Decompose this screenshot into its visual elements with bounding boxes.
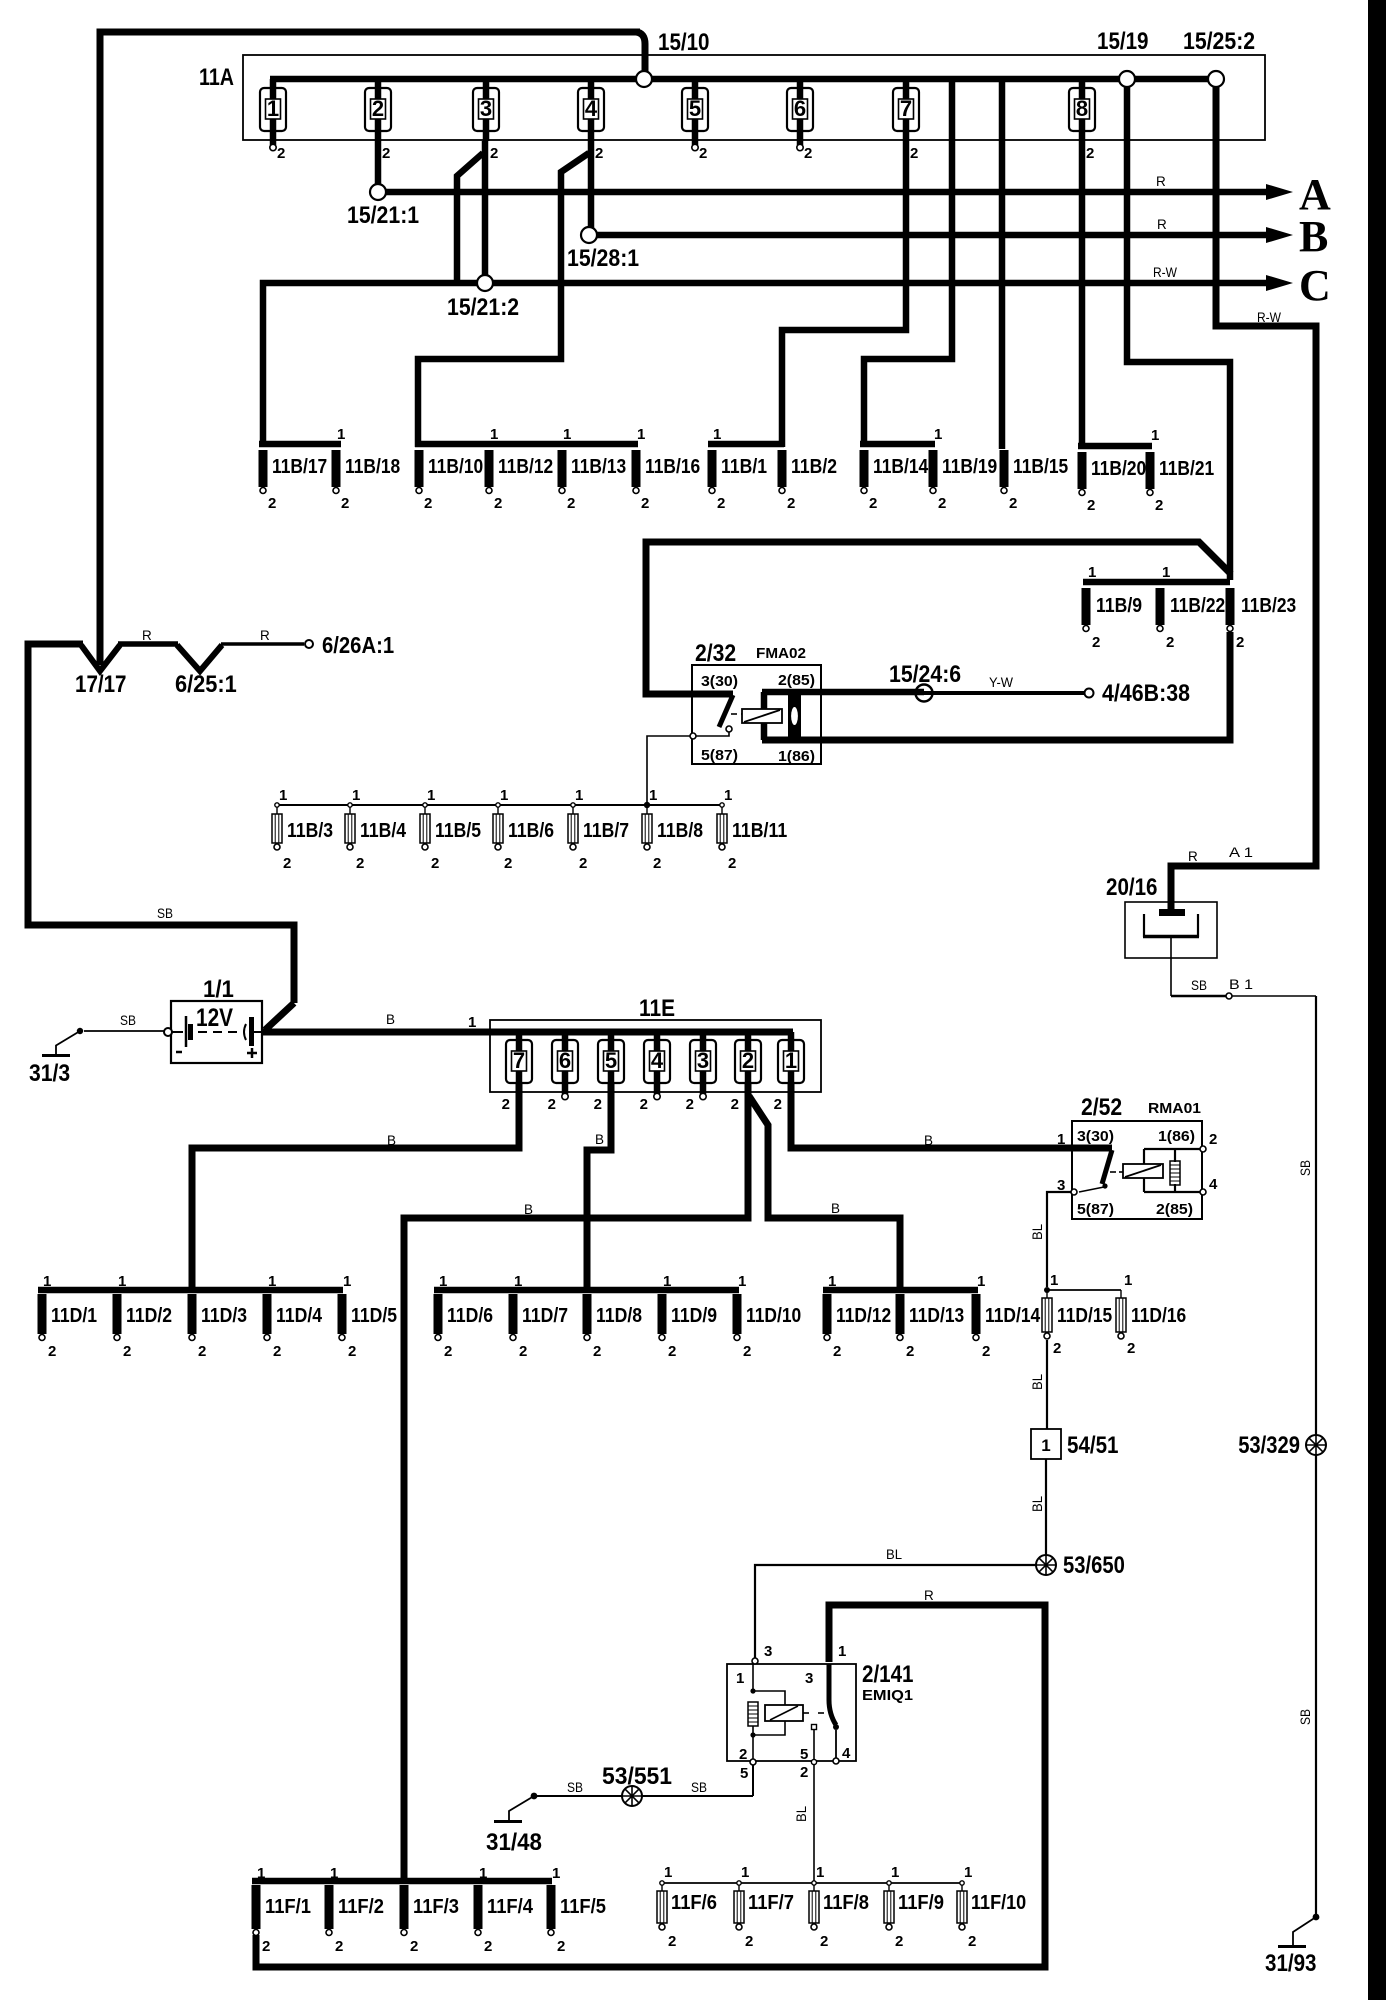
svg-text:1: 1 [479, 1865, 487, 1882]
fuse 11F/4 [474, 1885, 483, 1936]
fuse box 11A outline [243, 55, 1265, 140]
fuse 11B/5 [423, 803, 427, 807]
fuse 11B/1 [708, 450, 717, 494]
svg-text:1: 1 [267, 96, 279, 121]
relay 2/32 switch blade [719, 695, 733, 727]
svg-text:4: 4 [585, 96, 598, 121]
svg-text:1: 1 [490, 426, 498, 443]
fuse 11A position 8 [1069, 88, 1095, 131]
fuse 11B/3 [275, 803, 279, 807]
bus 11B/14-19 [860, 441, 935, 448]
svg-text:2: 2 [1166, 634, 1174, 651]
fuse 11B/19 [929, 450, 938, 494]
svg-text:11E: 11E [639, 995, 675, 1022]
fuse 11F/2 [325, 1885, 334, 1936]
svg-text:6/26A:1: 6/26A:1 [322, 632, 394, 658]
svg-text:11B/17: 11B/17 [272, 456, 327, 478]
svg-text:R-W: R-W [1153, 265, 1177, 280]
svg-text:2: 2 [494, 495, 502, 512]
svg-text:11D/12: 11D/12 [836, 1305, 891, 1327]
fuse 11E position 2 [735, 1040, 761, 1083]
relay 2/52 box [1072, 1121, 1202, 1219]
svg-text:11D/5: 11D/5 [351, 1305, 397, 1327]
svg-text:R: R [260, 628, 270, 643]
svg-text:2: 2 [382, 145, 390, 162]
svg-text:11F/10: 11F/10 [971, 1892, 1026, 1914]
node 15/25:2 [1208, 71, 1224, 87]
svg-text:2: 2 [717, 495, 725, 512]
svg-text:31/48: 31/48 [486, 1829, 542, 1856]
fuse 11A position 2 wire [375, 79, 382, 141]
svg-text:2: 2 [567, 495, 575, 512]
fuse 11D/13 [896, 1294, 905, 1341]
svg-text:2/52: 2/52 [1081, 1094, 1122, 1121]
bus 11F/6-10 [662, 1882, 962, 1884]
wire 11E fuse2 to 11F/3 (long drop) [404, 1082, 748, 1884]
svg-text:11B/15: 11B/15 [1013, 456, 1068, 478]
svg-text:11B/12: 11B/12 [498, 456, 553, 478]
svg-text:2: 2 [1053, 1340, 1061, 1357]
wire BL 2/141 to 11F/8 [813, 1765, 815, 1883]
svg-text:2: 2 [968, 1933, 976, 1950]
svg-text:11B/2: 11B/2 [791, 456, 837, 478]
svg-text:3: 3 [480, 96, 492, 121]
arrow C head [1266, 275, 1293, 291]
pin 2 of 11A fuse 6 [797, 144, 803, 150]
svg-text:4: 4 [651, 1048, 664, 1073]
fuse 11D/12 [823, 1294, 832, 1341]
svg-text:3: 3 [805, 1670, 813, 1687]
wire loop to 2/32 pin 3(30) [646, 542, 1231, 694]
svg-text:Y-W: Y-W [989, 675, 1013, 690]
svg-text:1: 1 [637, 426, 645, 443]
svg-text:2: 2 [262, 1938, 270, 1955]
svg-text:3: 3 [697, 1048, 709, 1073]
svg-text:2: 2 [800, 1764, 808, 1781]
fuse 11A position 4 [578, 88, 604, 131]
2/141 switch blade [829, 1664, 836, 1725]
wire B battery to 11E bus [262, 1029, 793, 1036]
svg-text:1: 1 [552, 1865, 560, 1882]
svg-text:2: 2 [1092, 634, 1100, 651]
fuse 11D/7 [509, 1294, 518, 1341]
battery plus sign [247, 1052, 257, 1055]
battery terminal circle [164, 1028, 172, 1036]
svg-text:1: 1 [427, 787, 435, 804]
svg-text:1: 1 [816, 1864, 824, 1881]
svg-text:1: 1 [118, 1273, 126, 1290]
fuse 11E position 3 wire [700, 1032, 707, 1094]
fuse 11E position 3 [690, 1040, 716, 1083]
node 15/24:6 circle [916, 685, 933, 702]
arrow B head [1266, 227, 1293, 243]
svg-text:2/141: 2/141 [862, 1661, 914, 1688]
svg-text:1: 1 [257, 1865, 265, 1882]
svg-text:8: 8 [1076, 96, 1088, 121]
pin circle 3 of 2/141 [752, 1658, 758, 1664]
svg-text:2: 2 [641, 495, 649, 512]
svg-text:11D/7: 11D/7 [522, 1305, 568, 1327]
svg-text:2: 2 [273, 1343, 281, 1360]
wire SB right rail [1315, 996, 1317, 1914]
svg-text:1: 1 [514, 1273, 522, 1290]
svg-text:2: 2 [283, 855, 291, 872]
wire 11A fuse3 to 15/21:2 [482, 141, 489, 276]
svg-text:11B/1: 11B/1 [721, 456, 767, 478]
junction 5(87) feed on 11B bus [644, 802, 650, 808]
battery 1/1 box [171, 1001, 262, 1063]
svg-text:11D/13: 11D/13 [909, 1305, 964, 1327]
fuse 11F/6 [660, 1881, 664, 1885]
svg-text:15/25:2: 15/25:2 [1183, 28, 1255, 55]
svg-text:15/21:2: 15/21:2 [447, 294, 519, 321]
relay 2/32 coil bar [761, 692, 768, 740]
svg-text:11B/22: 11B/22 [1170, 595, 1225, 617]
svg-text:RMA01: RMA01 [1148, 1100, 1201, 1117]
svg-text:B: B [387, 1133, 396, 1148]
2/141 fixed contact [812, 1725, 817, 1730]
bus 11B/10-16 [415, 441, 638, 448]
svg-text:15/21:1: 15/21:1 [347, 202, 419, 229]
svg-text:2: 2 [1086, 145, 1094, 162]
svg-text:1: 1 [741, 1864, 749, 1881]
fuse 11F/1 [252, 1885, 261, 1936]
svg-text:1: 1 [724, 787, 732, 804]
svg-text:2: 2 [490, 145, 498, 162]
connector 6/25:1 (V notch) [177, 645, 222, 671]
terminal 6/26A:1 [305, 640, 313, 648]
ground 31/3 [42, 1028, 83, 1056]
svg-text:B: B [595, 1132, 604, 1147]
wire 11E fuse7 to 11D/3 [192, 1082, 519, 1292]
fuse 11D/5 [338, 1294, 347, 1341]
svg-text:1: 1 [352, 787, 360, 804]
svg-text:2: 2 [268, 495, 276, 512]
svg-text:11F/2: 11F/2 [338, 1896, 384, 1918]
fuse 11F/3 [400, 1885, 409, 1936]
svg-text:BL: BL [1030, 1374, 1045, 1390]
svg-text:11D/10: 11D/10 [746, 1305, 801, 1327]
fuse 11D/6 [434, 1294, 443, 1341]
svg-text:2: 2 [938, 495, 946, 512]
fuse 11E position 4 wire [654, 1032, 661, 1094]
relay 2/52 contact dot [1102, 1183, 1107, 1188]
svg-text:15/10: 15/10 [658, 29, 710, 56]
fuse 11D/8 [583, 1294, 592, 1341]
junction dot 31/93 [1313, 1914, 1320, 1921]
svg-text:R: R [1156, 174, 1166, 189]
svg-text:1: 1 [736, 1670, 744, 1687]
fuse 11B/2 [778, 450, 787, 494]
relay 2/32 wire 2(85) to 15/24:6 [762, 689, 924, 696]
svg-text:11F/5: 11F/5 [560, 1896, 606, 1918]
fuse 11B/11 [720, 803, 724, 807]
fuse 11D/4 [263, 1294, 272, 1341]
fuse 11E position 5 wire [608, 1032, 615, 1082]
svg-text:5(87): 5(87) [701, 747, 738, 764]
svg-text:2: 2 [123, 1343, 131, 1360]
svg-text:B 1: B 1 [1229, 977, 1253, 992]
svg-text:B: B [524, 1202, 533, 1217]
pin circle 4 of 2/141 [833, 1758, 839, 1764]
svg-text:2: 2 [1155, 497, 1163, 514]
fuse 11B/23 (in-line) [1226, 588, 1235, 632]
fuse 11A position 6 wire [797, 79, 804, 145]
ground 31/93 [1293, 1917, 1316, 1945]
wire 11A fuse4 diagonal branch to 11B/10 bus [418, 153, 589, 447]
svg-text:1: 1 [713, 426, 721, 443]
2/141 coil [765, 1705, 803, 1721]
fuse 11D/15 [1046, 1290, 1048, 1298]
svg-text:2: 2 [668, 1933, 676, 1950]
svg-text:1: 1 [43, 1273, 51, 1290]
fuse 11D/2 [113, 1294, 122, 1341]
wire line C (R-W) with left drop to 11B/17 bus [263, 283, 1270, 447]
svg-text:B: B [831, 1201, 840, 1216]
fuse 11A position 3 wire [483, 79, 490, 141]
2/141 resistor [748, 1702, 758, 1726]
svg-text:2: 2 [335, 1938, 343, 1955]
svg-text:11D/3: 11D/3 [201, 1305, 247, 1327]
wire 11A bus drop to 11B/14 bus [864, 82, 952, 447]
fuse 11F/8 [812, 1881, 816, 1885]
svg-text:2: 2 [424, 495, 432, 512]
svg-text:2: 2 [787, 495, 795, 512]
svg-text:2: 2 [1087, 497, 1095, 514]
fuse 11E position 2 wire [745, 1032, 752, 1082]
wire battery-feed top horizontal + left vertical [100, 32, 640, 665]
wire 2/32 5(87) out [696, 732, 729, 736]
svg-text:53/650: 53/650 [1063, 1552, 1125, 1579]
component 20/16 box [1125, 902, 1217, 958]
wire 11A fuse3 diagonal branch [457, 153, 483, 281]
svg-text:11D/15: 11D/15 [1057, 1305, 1112, 1327]
svg-text:11B/23: 11B/23 [1241, 595, 1296, 617]
svg-text:1: 1 [439, 1273, 447, 1290]
2/141 coil branch [752, 1664, 754, 1690]
fuse 11E position 7 [506, 1040, 532, 1083]
wire 11A fuse7 to 11B/1 bus [782, 141, 906, 447]
svg-text:2: 2 [277, 145, 285, 162]
svg-text:1: 1 [1124, 1272, 1132, 1289]
wire SB 31/48 to 2/141 pin5 [534, 1795, 753, 1797]
svg-text:FMA02: FMA02 [756, 645, 806, 662]
svg-text:1: 1 [268, 1273, 276, 1290]
fuse 11B/9 [1082, 588, 1091, 632]
junction BL on 11D/15 bus [1044, 1287, 1050, 1293]
relay 2/32 box [692, 665, 821, 764]
svg-text:11F/7: 11F/7 [748, 1892, 794, 1914]
pin 2 of 11A fuse 1 [270, 144, 276, 150]
splice 53/329 [1306, 1435, 1326, 1455]
svg-text:SB: SB [157, 906, 173, 921]
svg-text:5(87): 5(87) [1077, 1201, 1114, 1218]
svg-text:2: 2 [895, 1933, 903, 1950]
svg-text:SB: SB [1298, 1709, 1313, 1725]
relay 2/52 coil [1123, 1164, 1163, 1178]
relay 2/52 switch blade [1102, 1150, 1112, 1184]
svg-text:2: 2 [742, 1048, 754, 1073]
svg-text:1: 1 [738, 1273, 746, 1290]
fuse 11E position 6 wire [562, 1032, 569, 1094]
svg-text:2: 2 [731, 1096, 739, 1113]
svg-text:2: 2 [341, 495, 349, 512]
svg-text:20/16: 20/16 [1106, 874, 1158, 901]
svg-text:11B/20: 11B/20 [1091, 458, 1146, 480]
svg-text:1: 1 [337, 426, 345, 443]
svg-text:BL: BL [1030, 1496, 1045, 1512]
fuse 11E position 1 [778, 1040, 804, 1083]
svg-text:15/19: 15/19 [1097, 28, 1149, 55]
20/16 terminal blob [1159, 909, 1185, 916]
svg-text:31/93: 31/93 [1265, 1950, 1317, 1977]
svg-text:1: 1 [891, 1864, 899, 1881]
svg-text:SB: SB [1298, 1160, 1313, 1176]
svg-text:11F/1: 11F/1 [265, 1896, 311, 1918]
bus 11D/1-11D/5 [38, 1287, 343, 1294]
fuse 11F/7 [737, 1881, 741, 1885]
terminal 4/46B:38 [1085, 689, 1094, 698]
wire 2/52 5(87) out [1079, 1187, 1104, 1192]
svg-text:1: 1 [1088, 564, 1096, 581]
wire 15/25:2 (R-W) to 20/16 feed [1171, 87, 1316, 912]
bus 11D/15-16 [1047, 1289, 1121, 1291]
svg-text:2: 2 [502, 1096, 510, 1113]
fuse 11A position 4 wire [588, 79, 595, 141]
svg-text:SB: SB [567, 1780, 583, 1795]
wire 17/17 to 6/25:1 [118, 641, 178, 647]
fuse 11D/9 [658, 1294, 667, 1341]
svg-text:11F/8: 11F/8 [823, 1892, 869, 1914]
svg-text:1: 1 [663, 1273, 671, 1290]
svg-text:15/28:1: 15/28:1 [567, 245, 639, 272]
svg-text:1: 1 [279, 787, 287, 804]
fuse 11B/17 [259, 450, 268, 494]
connector B1 circle [1226, 993, 1232, 999]
svg-text:2: 2 [739, 1746, 747, 1763]
svg-text:11F/4: 11F/4 [487, 1896, 534, 1918]
svg-text:1: 1 [343, 1273, 351, 1290]
wire 6/25:1 to 6/26A:1 [221, 642, 304, 646]
relay 2/32 switch dashes [731, 713, 737, 715]
svg-text:2: 2 [557, 1938, 565, 1955]
fuse 11B/18 [332, 450, 341, 494]
fuse 11F/5 [547, 1885, 556, 1936]
svg-text:3(30): 3(30) [701, 673, 738, 690]
fuse 11A position 5 wire [692, 79, 699, 145]
relay 2/141 box [727, 1664, 856, 1761]
svg-text:1: 1 [934, 426, 942, 443]
svg-text:11B/21: 11B/21 [1159, 458, 1214, 480]
svg-text:4: 4 [842, 1745, 851, 1762]
svg-text:1/1: 1/1 [203, 976, 234, 1003]
svg-text:11D/2: 11D/2 [126, 1305, 172, 1327]
svg-text:2: 2 [484, 1938, 492, 1955]
fuse box 11E outline [490, 1020, 821, 1092]
svg-text:2: 2 [348, 1343, 356, 1360]
fuse 11B/21 [1146, 452, 1155, 496]
wire Y-W to 4/46B:38 [916, 691, 1084, 695]
svg-text:1: 1 [468, 1014, 476, 1031]
bus 11B/20-21 [1078, 443, 1152, 450]
svg-text:2: 2 [372, 96, 384, 121]
2/141 lower branch [750, 1732, 755, 1737]
svg-text:1: 1 [1057, 1131, 1065, 1148]
svg-text:B: B [1299, 212, 1328, 261]
node 15/21:1 [370, 184, 386, 200]
svg-text:2: 2 [356, 855, 364, 872]
battery minus sign [176, 1051, 182, 1054]
svg-text:11D/16: 11D/16 [1131, 1305, 1186, 1327]
svg-text:1: 1 [1151, 427, 1159, 444]
wire 11A fuse8 to 11B/20 bus [1079, 141, 1086, 449]
svg-text:12V: 12V [196, 1004, 233, 1032]
svg-text:R: R [1157, 217, 1167, 232]
fuse 11B/10 [415, 450, 424, 494]
wire 11A fuse4 to 15/28:1 [588, 141, 595, 228]
fuse 11E position 6 [552, 1040, 578, 1083]
fuse 11A position 3 [473, 88, 499, 131]
svg-text:2: 2 [504, 855, 512, 872]
splice 53/551 [622, 1786, 642, 1806]
svg-text:2: 2 [833, 1343, 841, 1360]
junction dot SB [531, 1793, 538, 1800]
svg-text:31/3: 31/3 [29, 1060, 70, 1087]
svg-text:2: 2 [594, 1096, 602, 1113]
svg-text:2/32: 2/32 [695, 640, 736, 667]
relay 2/52 resistor [1170, 1161, 1180, 1185]
fuse 11B/7 [571, 803, 575, 807]
svg-text:11B/10: 11B/10 [428, 456, 483, 478]
fuse 11A position 5 [682, 88, 708, 131]
svg-text:11B/3: 11B/3 [287, 820, 333, 842]
svg-text:11D/14: 11D/14 [985, 1305, 1041, 1327]
fuse 11F/10 [960, 1881, 964, 1885]
svg-text:17/17: 17/17 [75, 671, 127, 698]
svg-text:2: 2 [869, 495, 877, 512]
fuse 11A position 8 wire [1079, 79, 1086, 141]
fuse 11B/13 [558, 450, 567, 494]
pin circle 2/5 of 2/141 [750, 1759, 756, 1765]
svg-text:2: 2 [653, 855, 661, 872]
svg-text:A 1: A 1 [1229, 845, 1253, 860]
svg-text:11D/9: 11D/9 [671, 1305, 717, 1327]
svg-text:R-W: R-W [1257, 310, 1281, 325]
svg-text:11F/9: 11F/9 [898, 1892, 944, 1914]
bus 11D/6-11D/10 [434, 1287, 739, 1294]
svg-text:2(85): 2(85) [1156, 1201, 1193, 1218]
svg-text:1: 1 [1050, 1272, 1058, 1289]
svg-text:2: 2 [820, 1933, 828, 1950]
svg-text:BL: BL [1030, 1224, 1045, 1240]
bus bar in 11A [270, 76, 1216, 83]
svg-text:1: 1 [500, 787, 508, 804]
fuse 11E position 5 [598, 1040, 624, 1083]
svg-text:3(30): 3(30) [1077, 1128, 1114, 1145]
fuse 11B/20 [1078, 452, 1087, 496]
pin 2 of 11E fuse 6 [562, 1093, 568, 1099]
svg-text:C: C [1299, 261, 1331, 310]
fuse 11A position 2 [365, 88, 391, 131]
fuse 11B/4 [348, 803, 352, 807]
relay 2/52 pin circles [1200, 1146, 1206, 1152]
svg-text:2: 2 [1236, 634, 1244, 651]
20/16 bracket [1143, 914, 1145, 937]
svg-text:54/51: 54/51 [1067, 1432, 1119, 1459]
battery plates [171, 1031, 183, 1033]
svg-text:2: 2 [1127, 1340, 1135, 1357]
wire line B (R) [596, 232, 1270, 239]
